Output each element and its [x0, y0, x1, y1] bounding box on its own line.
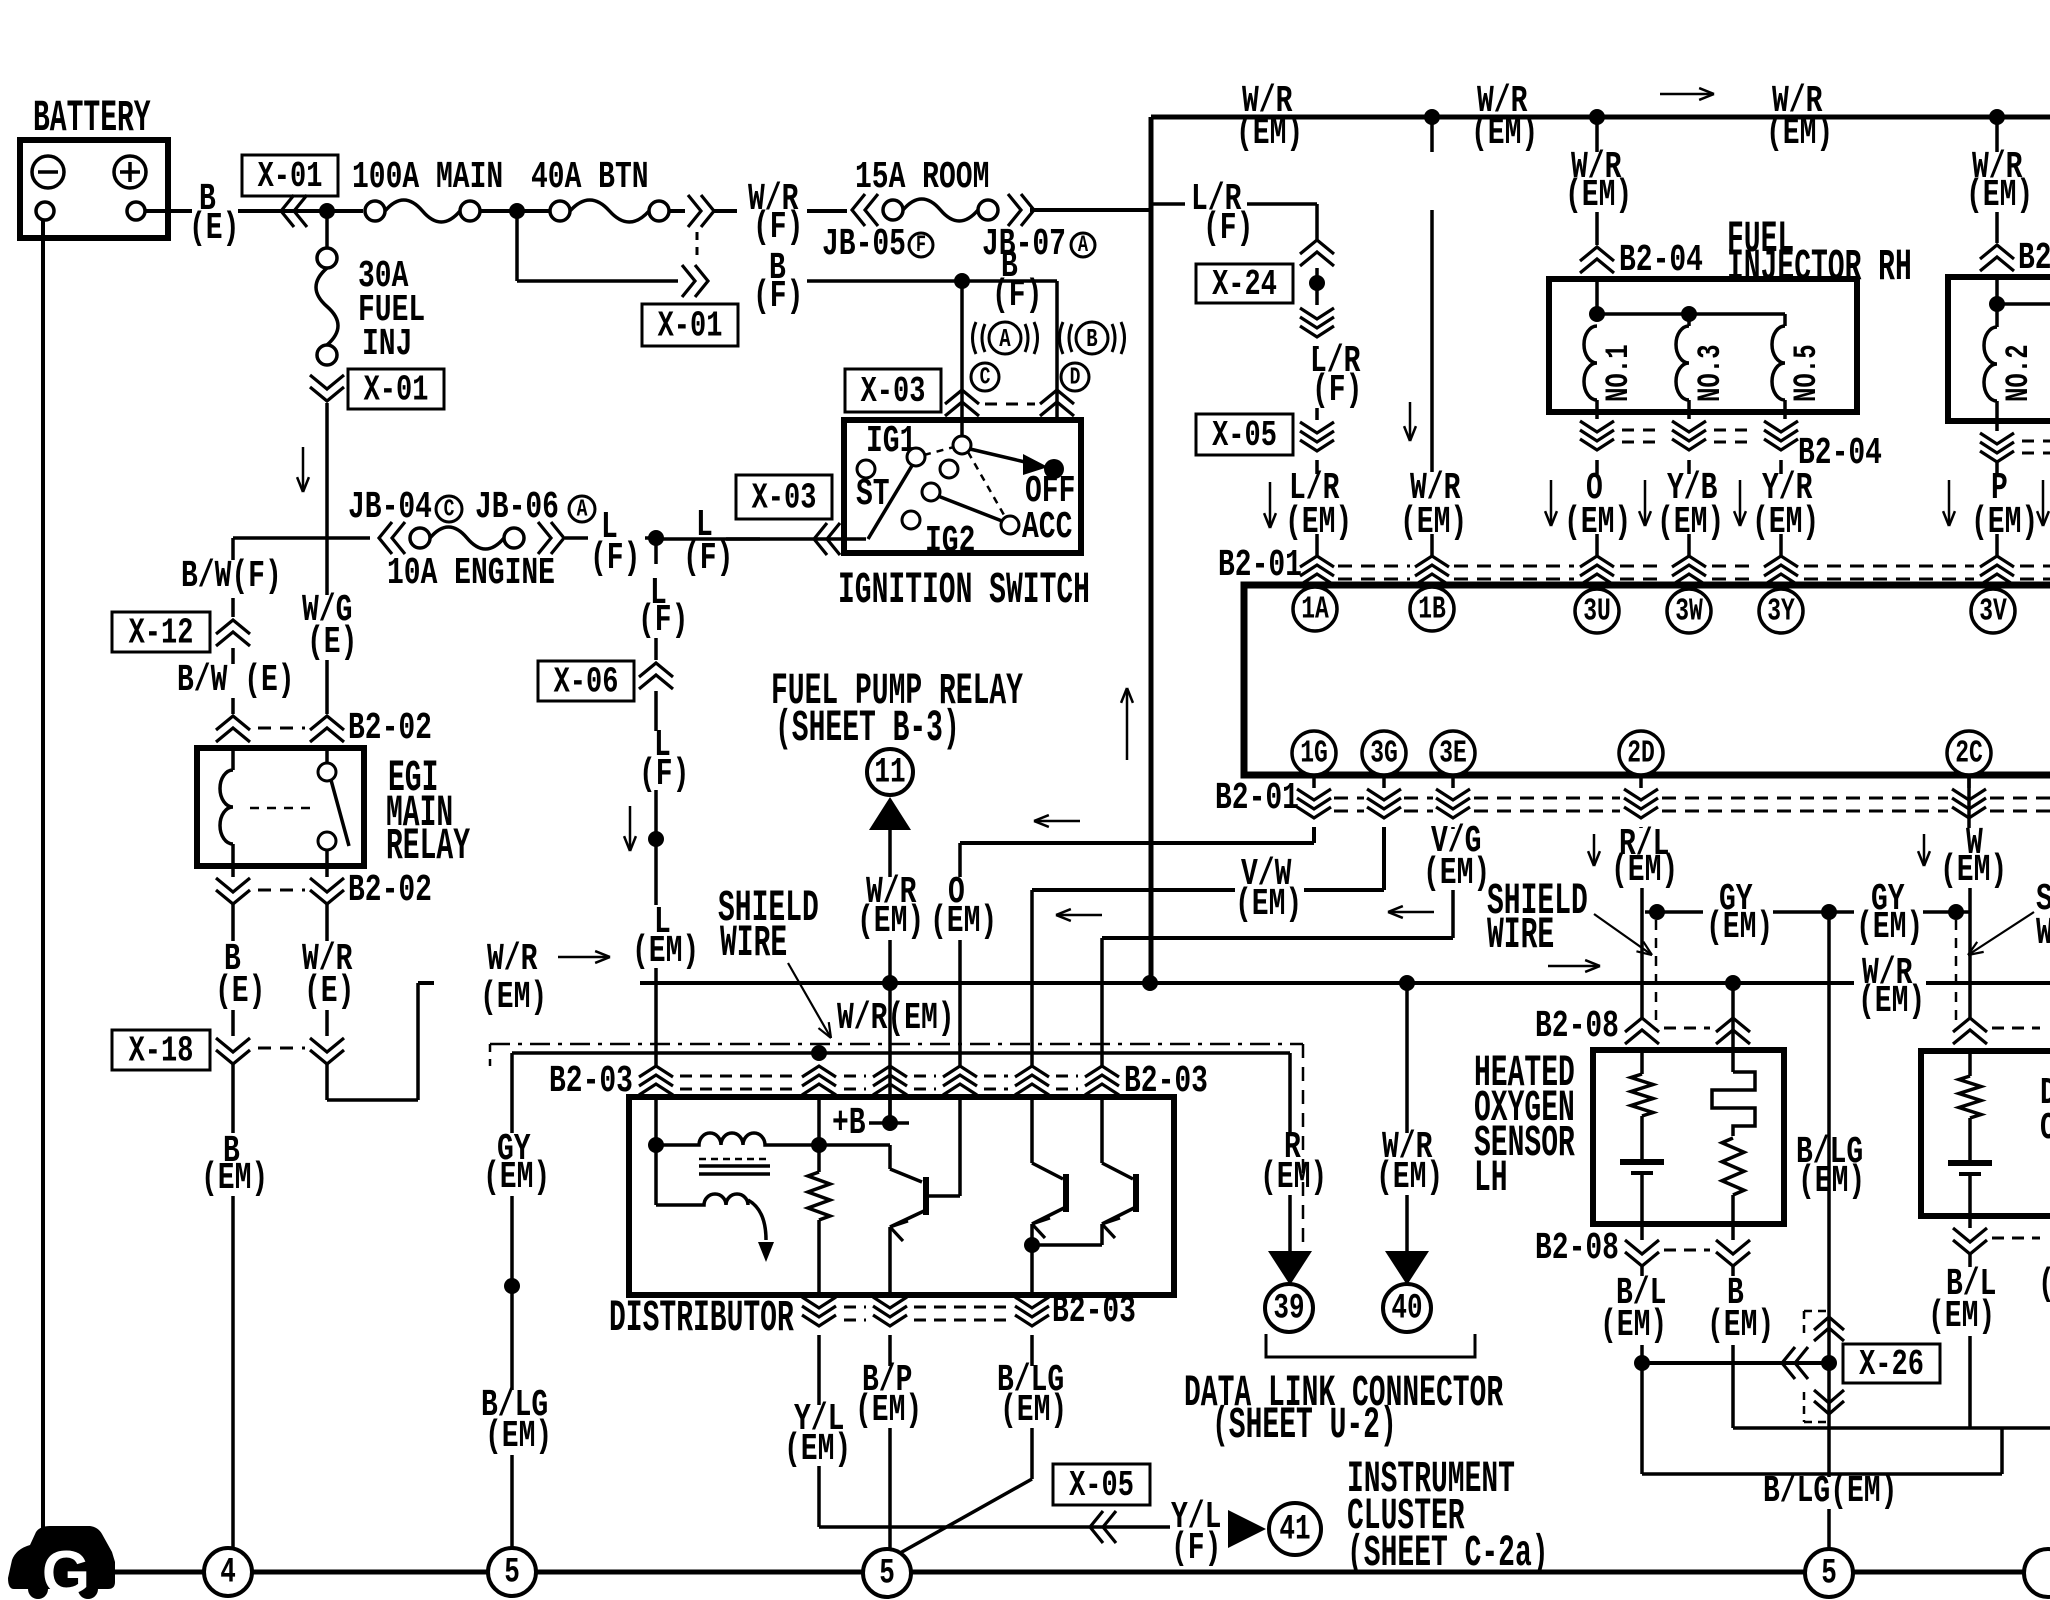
- svg-text:B2-01: B2-01: [1215, 776, 1299, 819]
- svg-text:41: 41: [1279, 1510, 1310, 1550]
- distributor box: [629, 1097, 1174, 1295]
- bus junction dots: [882, 975, 898, 991]
- wire V/G into distributor: [1100, 1094, 1104, 1101]
- wire GY/R into distributor: [817, 1094, 821, 1145]
- fuel injector RH box 2: [1948, 277, 2050, 421]
- heated oxygen sensor RH box: [1921, 1051, 2050, 1216]
- svg-text:IGNITION SWITCH: IGNITION SWITCH: [838, 566, 1090, 616]
- svg-text:JB-07: JB-07: [982, 222, 1066, 265]
- svg-text:(E): (E): [304, 969, 354, 1012]
- EGI main relay box: [197, 748, 364, 866]
- svg-text:(EM): (EM): [857, 899, 924, 942]
- arrow down on 1B wire: [1409, 402, 1412, 441]
- X-24 lower chevrons: [1300, 308, 1334, 319]
- wire 3E V/G: [1451, 827, 1455, 829]
- svg-text:X-06: X-06: [554, 661, 619, 703]
- wire B/L bottom route: [1642, 1472, 2002, 1476]
- connector box X-12: [112, 612, 210, 652]
- svg-text:39: 39: [1273, 1289, 1304, 1329]
- connector X-12 chevrons: [216, 620, 250, 634]
- emitter junction: [1024, 1237, 1040, 1253]
- distributor coil node dots: [648, 1137, 664, 1153]
- svg-text:NO.5: NO.5: [1788, 344, 1826, 402]
- ignition switch box: [844, 420, 1081, 553]
- svg-text:(EM): (EM): [1798, 1159, 1865, 1202]
- svg-text:OFF: OFF: [1025, 469, 1075, 512]
- svg-text:1A: 1A: [1301, 592, 1329, 627]
- injector 2 internal node: [1989, 296, 2005, 312]
- connector circle D: [1061, 363, 1089, 391]
- svg-text:X-18: X-18: [129, 1030, 194, 1072]
- connector circle A with brackets: [989, 322, 1021, 354]
- ignition B to OFF line with arrow: [970, 449, 1025, 462]
- ignition coil primary: [656, 1133, 819, 1145]
- svg-text:5: 5: [879, 1554, 895, 1594]
- connector box X-01 on B(F): [642, 304, 738, 346]
- svg-text:B2-02: B2-02: [348, 868, 432, 911]
- svg-text:3G: 3G: [1370, 736, 1398, 771]
- svg-text:40: 40: [1391, 1289, 1422, 1329]
- wire L/R(EM) to ECU pin 1A: [1315, 460, 1319, 474]
- wire GY/R horizontal: [512, 1051, 819, 1055]
- svg-text:(F): (F): [753, 274, 803, 317]
- connector box X-05 right: [1196, 414, 1293, 455]
- wire 15A output to EM vertical: [1030, 208, 1151, 212]
- svg-text:X-12: X-12: [129, 612, 194, 654]
- svg-text:NO.1: NO.1: [1600, 344, 1638, 402]
- svg-text:X-01: X-01: [364, 369, 429, 411]
- svg-text:(EM): (EM): [1766, 111, 1833, 154]
- circle 40: [1383, 1284, 1431, 1332]
- connector B2-08 chevron bottom right: [1953, 1228, 1987, 1242]
- svg-text:(EM): (EM): [632, 929, 699, 972]
- svg-text:WIRE: WIRE: [720, 919, 787, 969]
- wire B(F) to ignition area: [807, 279, 962, 283]
- wire W/R(EM) injector feed: [1595, 117, 1599, 152]
- arrow left near V/W: [1056, 914, 1102, 917]
- injector coil NO.1: [1584, 326, 1597, 400]
- connector B2-04 chevrons bottom: [1580, 421, 1614, 432]
- svg-text:B2-04: B2-04: [1619, 238, 1703, 281]
- junction 30A branch: [319, 203, 335, 219]
- injector coil NO.2: [1984, 327, 1997, 401]
- ground rail: [110, 1570, 2050, 1575]
- svg-text:X-01: X-01: [658, 305, 723, 347]
- svg-text:B2-02: B2-02: [348, 706, 432, 749]
- svg-text:C: C: [980, 364, 991, 391]
- svg-text:W/R(EM): W/R(EM): [837, 996, 955, 1039]
- sensor RH cell: [1948, 1160, 1992, 1166]
- svg-text:(EM): (EM): [1966, 173, 2033, 216]
- svg-text:3V: 3V: [1979, 594, 2007, 629]
- sensor LH heater square wave: [1731, 1050, 1735, 1072]
- wire B/L right down: [1968, 1253, 1972, 1267]
- svg-text:(F): (F): [1171, 1526, 1221, 1569]
- connector box X-18: [112, 1030, 210, 1070]
- svg-text:(EM): (EM): [201, 1156, 268, 1199]
- svg-text:B2-03: B2-03: [1052, 1289, 1136, 1332]
- svg-text:(EM): (EM): [1600, 1303, 1667, 1346]
- sensor LH heater resistor: [1722, 1138, 1744, 1195]
- ground circle 4: [204, 1548, 252, 1596]
- wire battery negative to ground G: [41, 220, 45, 1529]
- wire B(E) below relay: [231, 904, 235, 941]
- svg-text:NO.2: NO.2: [2000, 344, 2038, 402]
- svg-text:C: C: [444, 496, 455, 523]
- top bus junction dot 2: [1589, 109, 1605, 125]
- svg-text:4: 4: [220, 1553, 236, 1593]
- shield pointer arrow right: [1968, 912, 2034, 955]
- connector box X-01 main: [242, 155, 338, 196]
- svg-text:B2-08: B2-08: [1535, 1226, 1619, 1269]
- arrow left near V/G: [1388, 911, 1434, 914]
- wire W/R(E) to EM bus: [325, 1062, 329, 1100]
- distributor resistor: [817, 1145, 821, 1172]
- svg-text:(EM): (EM): [1000, 1388, 1067, 1431]
- connector X-01 chevrons on B(F): [682, 265, 695, 297]
- wire W/R(EM) top bus: [1151, 115, 2050, 120]
- svg-text:3W: 3W: [1675, 594, 1703, 629]
- connector B2-04 chevrons top right: [1980, 245, 2014, 259]
- svg-text:(SHEET U-2): (SHEET U-2): [1212, 1401, 1397, 1451]
- circle 39: [1265, 1284, 1313, 1332]
- wire 10A engine row: [233, 536, 370, 540]
- ECU pin 3U: [1575, 589, 1619, 633]
- svg-text:+B: +B: [832, 1101, 866, 1144]
- top bus junction dot 3: [1989, 109, 2005, 125]
- wire B/W(F) branch down: [231, 538, 235, 560]
- ignition switch terminals: [857, 460, 875, 478]
- wire battery positive B(E): [145, 209, 192, 213]
- label B/W (E): [231, 648, 235, 664]
- connector box X-26: [1843, 1344, 1940, 1383]
- triangle to 41: [1228, 1510, 1266, 1548]
- labels O Y/B Y/R with arrows: [1550, 480, 1553, 526]
- svg-text:(EM): (EM): [1706, 905, 1773, 948]
- connector box X-03 upper: [845, 369, 941, 412]
- wire B(EM) to ground circle 4: [231, 1062, 235, 1133]
- label P (EM) with arrows: [1948, 480, 1951, 526]
- svg-text:B/LG(EM): B/LG(EM): [1763, 1469, 1897, 1512]
- svg-text:(F): (F): [639, 752, 689, 795]
- ground icon G car: [8, 1526, 115, 1589]
- svg-text:(EM): (EM): [1235, 882, 1302, 925]
- svg-text:X-26: X-26: [1859, 1343, 1924, 1385]
- svg-text:100A MAIN: 100A MAIN: [352, 155, 503, 198]
- junction L(F): [648, 530, 664, 546]
- wire B/L down: [1640, 1266, 1644, 1276]
- shield pointer arrow left: [788, 963, 831, 1038]
- triangle to 11: [869, 797, 911, 830]
- relay contact: [325, 748, 329, 763]
- svg-text:X-03: X-03: [861, 370, 926, 412]
- connector X-26 chevrons: [1814, 1317, 1844, 1330]
- svg-text:A: A: [1078, 233, 1089, 259]
- connector X-01 chevrons on B(E) wire: [281, 195, 294, 227]
- ECU pin 3G: [1362, 731, 1406, 775]
- svg-text:(EM): (EM): [1423, 851, 1490, 894]
- ECU pin 2C: [1947, 731, 1991, 775]
- ignition coil core: [699, 1164, 770, 1168]
- svg-text:(EM): (EM): [1940, 848, 2007, 891]
- shield dash-dot line: [490, 1043, 1303, 1046]
- svg-text:(F): (F): [683, 536, 733, 579]
- svg-text:A: A: [999, 324, 1011, 354]
- ignition coil secondary: [654, 1145, 658, 1205]
- wire Y/L from distributor: [817, 1335, 821, 1405]
- connector B2-04 chevron bottom right: [1980, 433, 2014, 444]
- label L/R (EM) with arrow: [1269, 482, 1272, 528]
- svg-text:B2: B2: [2018, 236, 2050, 279]
- junction B/L X-26: [1634, 1355, 1650, 1371]
- triangle to 39: [1268, 1251, 1312, 1285]
- arrow up beside heavy vertical: [1126, 688, 1129, 760]
- svg-text:(EM): (EM): [855, 1388, 922, 1431]
- wire L(F) into ignition switch: [661, 537, 866, 541]
- svg-text:X-24: X-24: [1212, 263, 1277, 305]
- svg-text:INJECTOR RH: INJECTOR RH: [1727, 243, 1912, 293]
- svg-text:X-05: X-05: [1069, 1464, 1134, 1506]
- wire L(F) vertical below junction: [654, 538, 658, 564]
- svg-text:(EM): (EM): [930, 899, 997, 942]
- svg-text:(EM): (EM): [1858, 979, 1925, 1022]
- svg-text:X-05: X-05: [1212, 414, 1277, 456]
- relay coil: [231, 748, 235, 770]
- sensor RH resistor: [1968, 1048, 1972, 1076]
- svg-text:(SHEET B-3): (SHEET B-3): [775, 704, 960, 754]
- sensor LH resistor: [1640, 1047, 1644, 1074]
- wire 30A output down to 10A row crossing: [325, 403, 329, 595]
- heated oxygen sensor LH box: [1593, 1050, 1784, 1224]
- wire W/R(EM) down to pin 1B: [1430, 117, 1434, 152]
- svg-text:(EM): (EM): [1707, 1303, 1774, 1346]
- GY row wire: [1645, 910, 1703, 914]
- svg-text:3E: 3E: [1439, 736, 1467, 771]
- svg-text:DISTRIBUTOR: DISTRIBUTOR: [609, 1294, 794, 1344]
- svg-text:A: A: [577, 496, 588, 523]
- wire 2C W: [1967, 775, 1971, 828]
- svg-text:JB-05: JB-05: [822, 222, 906, 265]
- ECU pin 1B: [1410, 587, 1454, 631]
- shield pointer arrow middle: [1594, 914, 1652, 955]
- svg-text:B2-01: B2-01: [1218, 543, 1302, 586]
- wire B/LG from distributor: [1030, 1335, 1034, 1366]
- svg-text:(EM): (EM): [1565, 173, 1632, 216]
- wire W/R(EM) injector 2 feed: [1995, 117, 1999, 152]
- svg-text:2C: 2C: [1955, 736, 1983, 771]
- ECU box: [1244, 585, 2050, 775]
- svg-text:(F): (F): [638, 598, 688, 641]
- svg-text:X-01: X-01: [258, 155, 323, 197]
- wire 2D R/L: [1639, 827, 1643, 828]
- svg-text:B/W (E): B/W (E): [177, 658, 295, 701]
- svg-text:BATTERY: BATTERY: [33, 94, 151, 144]
- wire X-26 link: [1642, 1361, 1829, 1365]
- svg-text:(EM): (EM): [1971, 500, 2038, 543]
- svg-text:15A ROOM: 15A ROOM: [855, 155, 989, 198]
- connector circle B with brackets: [1076, 322, 1108, 354]
- ECU pin 1A: [1293, 587, 1337, 631]
- svg-text:(EM): (EM): [1236, 111, 1303, 154]
- svg-text:(EM): (EM): [1752, 500, 1819, 543]
- svg-text:(E): (E): [215, 969, 265, 1012]
- wire into sensor: [1731, 983, 1735, 1050]
- svg-text:O: O: [2040, 1106, 2050, 1149]
- ground circle right edge partial: [2024, 1549, 2050, 1597]
- ignition IG2 to ACC line: [938, 496, 1002, 521]
- svg-text:NO.3: NO.3: [1692, 344, 1730, 402]
- junction on L wire: [648, 831, 664, 847]
- arrow left above 1G wire: [1034, 820, 1080, 823]
- connector X-05 chevrons right: [1300, 422, 1334, 433]
- ECU pin 3V: [1971, 589, 2015, 633]
- fuse 10A ENGINE: [379, 522, 392, 554]
- svg-text:(EM): (EM): [1260, 1155, 1327, 1198]
- svg-text:(EM): (EM): [480, 975, 547, 1018]
- svg-text:(F): (F): [590, 536, 640, 579]
- ECU pin 3W: [1667, 589, 1711, 633]
- transistor T3: [1100, 1101, 1104, 1163]
- svg-text:W/R: W/R: [487, 937, 537, 980]
- connector B2-03 chevron row bottom: [802, 1297, 836, 1308]
- shield dashed stubs: [1655, 920, 1658, 1030]
- svg-text:X-03: X-03: [752, 477, 817, 519]
- ignition dashed links: [924, 447, 954, 455]
- svg-text:(EM): (EM): [784, 1427, 851, 1470]
- wire B/LG(EM) from GY row down: [1827, 912, 1831, 1477]
- connector B2-01 bottom chevron row: [1312, 775, 1316, 788]
- wire W/R(F) to 15A fuse: [714, 209, 737, 213]
- connector B2-04 chevrons top: [1580, 247, 1614, 261]
- top bus junction dot 1: [1424, 109, 1440, 125]
- transistor T1: [819, 1143, 890, 1147]
- connector X-24 chevrons: [1300, 240, 1334, 254]
- wire W/R(EM) fuel pump: [888, 830, 892, 877]
- bracket under 39 40: [1266, 1334, 1475, 1357]
- svg-text:RELAY: RELAY: [386, 822, 470, 872]
- svg-text:WIRE: WIRE: [1487, 911, 1554, 961]
- ground circle 5 right: [1805, 1549, 1853, 1597]
- svg-text:(EM): (EM): [1928, 1294, 1995, 1337]
- junction B(F) split: [954, 273, 970, 289]
- label W (EM) with arrow: [1923, 834, 1926, 866]
- wire L/R(F) branch: [1151, 202, 1185, 206]
- svg-text:10A ENGINE: 10A ENGINE: [387, 551, 555, 594]
- svg-text:(EM): (EM): [485, 1414, 552, 1457]
- svg-text:(EM): (EM): [483, 1155, 550, 1198]
- svg-text:1B: 1B: [1418, 592, 1446, 627]
- heavy vertical W/R EM: [1149, 117, 1154, 983]
- wire W/R(EM) main bus: [418, 981, 434, 985]
- wire W/R(EM) to 40: [1405, 983, 1409, 1133]
- ECU pin 2D: [1619, 731, 1663, 775]
- wire 1G to O line: [1312, 827, 1316, 843]
- svg-text:F: F: [916, 233, 926, 259]
- connector X-06 chevrons: [639, 663, 673, 677]
- injector internal bus: [1597, 312, 1785, 316]
- fuel injector RH box: [1549, 279, 1857, 412]
- connector X-01 chevrons after 40A fuse: [688, 195, 701, 227]
- svg-text:JB-04: JB-04: [348, 485, 432, 528]
- connector X-03 chevrons C and D: [945, 390, 979, 404]
- svg-text:5: 5: [504, 1553, 520, 1593]
- transistor T2: [1030, 1101, 1034, 1163]
- wire B/P from distributor: [888, 1335, 892, 1366]
- connector B2-08 chevrons top right: [1953, 1018, 1987, 1032]
- ECU pin 3Y: [1759, 589, 1803, 633]
- wire O into distributor: [958, 1094, 962, 1101]
- svg-text:1G: 1G: [1300, 736, 1328, 771]
- svg-text:D: D: [1070, 364, 1081, 391]
- svg-text:(F): (F): [753, 205, 803, 248]
- svg-text:IG2: IG2: [925, 519, 975, 562]
- label R/L (EM) with arrow: [1593, 834, 1596, 866]
- connector B2-08 chevrons bottom: [1625, 1240, 1659, 1254]
- junction 40A/room branch: [509, 203, 525, 219]
- svg-text:B/W(F): B/W(F): [181, 554, 282, 597]
- wire B(F) left branch down to ignition B terminal: [960, 281, 964, 436]
- ground circle 5 middle: [863, 1549, 911, 1597]
- ignition OFF terminal: [1044, 459, 1064, 479]
- connector B2-01 top chevron row: [1300, 556, 1334, 567]
- svg-text:(EM): (EM): [1376, 1155, 1443, 1198]
- connector box X-24: [1196, 264, 1293, 303]
- svg-text:(: (: [2038, 1262, 2050, 1305]
- svg-text:(E): (E): [307, 620, 357, 663]
- connector B2-02 chevrons upper: [216, 716, 250, 730]
- connector circle C: [971, 363, 999, 391]
- relay dashed link: [250, 807, 316, 810]
- connector box X-01 near 30A: [348, 369, 444, 409]
- circle 41 instrument cluster: [1269, 1503, 1321, 1555]
- svg-text:40A BTN: 40A BTN: [531, 155, 649, 198]
- circle 11 fuel pump relay: [867, 749, 913, 795]
- svg-text:(F): (F): [1203, 206, 1253, 249]
- wire L into distributor: [654, 1094, 658, 1145]
- connector box X-05 bottom: [1053, 1464, 1150, 1505]
- connector X-01 chevrons below 30A fuse: [310, 375, 344, 389]
- svg-text:ST: ST: [856, 472, 890, 515]
- junction on L/R wire: [1315, 268, 1319, 305]
- svg-text:B2-08: B2-08: [1535, 1004, 1619, 1047]
- connector B2-03 chevron row top: [639, 1066, 673, 1077]
- injector coil NO.5: [1783, 314, 1787, 326]
- svg-text:G: G: [42, 1539, 90, 1600]
- battery: [20, 140, 168, 238]
- wire B(F) branch from 40A node: [515, 211, 519, 281]
- sensor LH cell: [1620, 1159, 1664, 1165]
- svg-text:5: 5: [1821, 1554, 1837, 1594]
- wire 3G V/W: [1382, 827, 1386, 890]
- wire V/W into distributor: [1030, 1094, 1034, 1101]
- svg-text:(EM): (EM): [1856, 905, 1923, 948]
- triangle to 40: [1385, 1251, 1429, 1285]
- wire Y/L bottom run: [819, 1525, 1170, 1529]
- svg-text:LH: LH: [1474, 1154, 1508, 1204]
- svg-text:(EM): (EM): [1611, 848, 1678, 891]
- wire GY (EM) down left: [510, 1053, 514, 1133]
- svg-text:JB-06: JB-06: [475, 485, 559, 528]
- connector box X-03 lower: [736, 475, 832, 519]
- svg-text:WI: WI: [2036, 911, 2050, 954]
- junction on GY line: [504, 1278, 520, 1294]
- svg-text:2D: 2D: [1627, 736, 1655, 771]
- wire W/R(E) below relay: [325, 904, 329, 941]
- wire W/R +B into distributor: [888, 1094, 892, 1123]
- wire B down: [1731, 1266, 1735, 1276]
- arrow right top: [1660, 93, 1714, 96]
- wire B/LG diagonal to ground 5: [893, 1479, 1032, 1557]
